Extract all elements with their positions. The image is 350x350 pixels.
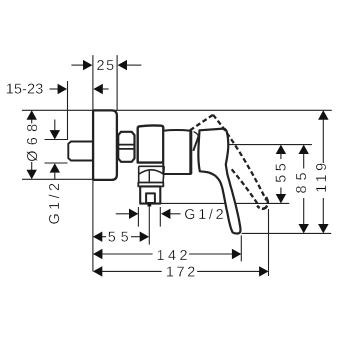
wall union G1/2 connector <box>68 142 93 161</box>
outlet nipple G1/2 <box>140 186 160 203</box>
escutcheon (Ø68) <box>93 110 117 179</box>
extension line handle tip x=241.3 <box>240 235 242 261</box>
extension line raised lever tip x=268.5 <box>268 209 270 276</box>
dimension G1/2 outlet (bottom) <box>116 207 224 223</box>
pivot arc <box>194 132 202 144</box>
body right cap thick edge <box>189 130 192 174</box>
lever raised position dashed blade bottom <box>232 169 259 205</box>
dimension 25 <box>71 58 141 74</box>
lever handle (rest position) <box>198 129 240 234</box>
dimension 55 (right vertical) <box>273 145 289 204</box>
lever raised position dashed upper <box>190 115 213 131</box>
outlet cone section <box>139 166 165 182</box>
extension line escutcheon front x=117.1 <box>116 55 118 110</box>
outlet nub <box>148 204 152 207</box>
svg-text:119: 119 <box>314 163 330 193</box>
svg-text:15-23: 15-23 <box>6 82 44 98</box>
reference line G1/2 union bottom <box>45 162 68 164</box>
svg-text:G1/2: G1/2 <box>184 207 223 223</box>
extension line wall plane x=92.9 <box>92 55 94 271</box>
reference line G1/2 union top <box>45 139 68 141</box>
svg-text:G1/2: G1/2 <box>47 183 63 225</box>
reference line bottom of escutcheon (Ø68) <box>22 178 93 180</box>
outlet flange <box>138 183 163 187</box>
extension line outlet left <box>137 207 139 227</box>
svg-text:25: 25 <box>97 58 115 74</box>
extension line x=67.5 (15-23) <box>67 81 69 140</box>
union nut <box>118 132 134 162</box>
dimension 119 (right vertical) <box>314 110 330 233</box>
handle pivot wedge <box>193 131 200 151</box>
outlet centre line <box>148 207 150 245</box>
lever raised position dashed blade top <box>213 115 266 201</box>
dimension 85 (right vertical) <box>294 145 310 234</box>
lever raised position dashed tip <box>257 197 268 209</box>
reference line top (tangent escutcheon top, Ø68 / 119) <box>22 109 332 111</box>
dimension 142 <box>93 248 241 264</box>
dimension G1/2 union (left) <box>47 120 63 225</box>
dimension 172 <box>93 265 269 281</box>
body right cap <box>163 130 191 174</box>
dimension Ø68 <box>25 110 41 179</box>
dimension 55 (bottom horizontal) <box>93 230 149 246</box>
svg-text:172: 172 <box>166 265 195 281</box>
outlet inner square <box>146 193 155 203</box>
reference line handle lowest point (85/119 bottom) <box>242 232 332 234</box>
reference line lever raised tip (55 bottom) <box>160 202 289 204</box>
dimension 15-23 <box>6 82 109 98</box>
reference line handle level (55/85 top) <box>229 144 312 146</box>
valve body (cartridge housing) <box>138 125 164 162</box>
extension line outlet right <box>159 207 161 227</box>
svg-text:142: 142 <box>157 248 188 264</box>
svg-text:Ø68: Ø68 <box>25 124 41 162</box>
